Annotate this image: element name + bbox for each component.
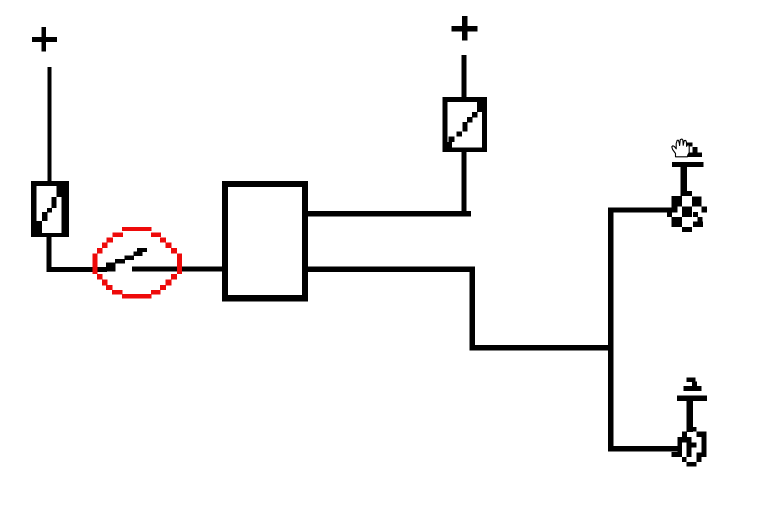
battery plus terminal 2 (top middle) (452, 16, 478, 41)
fuse F1 (left, rectangle with diagonal) (31, 181, 69, 237)
wire (461, 149, 466, 216)
wire (308, 211, 471, 217)
switch S1 lever (staircase) (106, 248, 147, 272)
wire (469, 345, 613, 351)
pushbutton steps beside cursor (684, 142, 702, 157)
lamp E1 (pixelated circle with X) (667, 191, 707, 232)
wire (right rail) (608, 208, 613, 452)
wire (46, 267, 107, 272)
lamp E1 stem (681, 167, 687, 196)
horn H1 (pixelated) (672, 427, 707, 466)
switch S1 red circle (pixelated ellipse) (93, 227, 183, 299)
horn H1 stem (687, 401, 693, 432)
wire (461, 55, 466, 98)
horn H1 terminal bar (677, 396, 707, 401)
wire (48, 67, 52, 182)
control box U1 (225, 184, 305, 298)
wire (bottom branch) (608, 446, 679, 452)
wire (46, 237, 51, 272)
fuse F2 (top, square with diagonal) (442, 97, 487, 152)
mouse hand cursor (672, 139, 689, 157)
wire (top branch) (608, 208, 672, 213)
wire (132, 267, 223, 272)
label 2 (above horn) (684, 378, 702, 392)
battery plus terminal 1 (top left) (32, 27, 57, 52)
wire (469, 267, 475, 351)
lamp E1 terminal bar (672, 162, 704, 167)
wire (308, 267, 475, 272)
